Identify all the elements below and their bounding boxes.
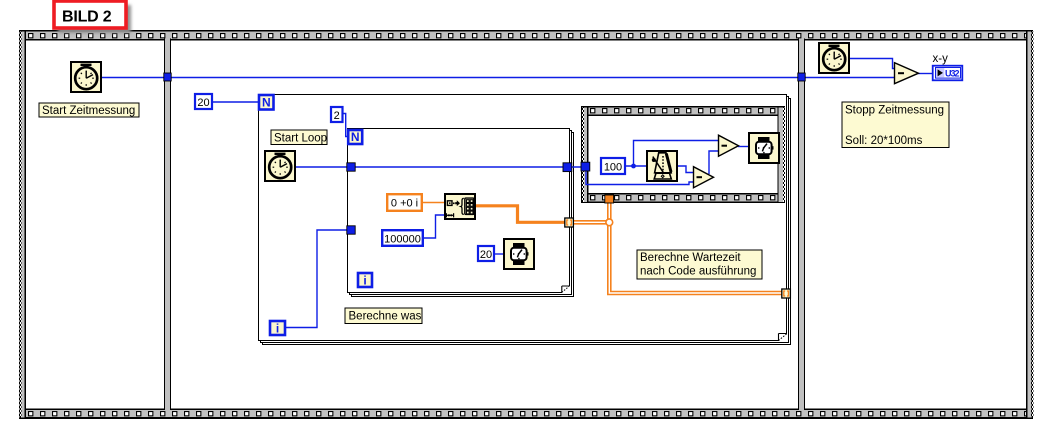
svg-text:100: 100	[604, 162, 622, 174]
svg-text:20: 20	[480, 249, 492, 261]
svg-text:2: 2	[334, 110, 340, 122]
svg-text:Berechne Wartezeit: Berechne Wartezeit	[640, 252, 741, 264]
svg-text:0 +0 i: 0 +0 i	[391, 198, 418, 210]
svg-text:nach Code ausführung: nach Code ausführung	[640, 266, 756, 278]
svg-text:i: i	[276, 321, 279, 335]
svg-text:100000: 100000	[384, 233, 421, 245]
svg-text:i: i	[363, 273, 366, 287]
svg-text:N: N	[262, 95, 271, 109]
svg-text:20: 20	[197, 97, 209, 109]
svg-text:Start Zeitmessung: Start Zeitmessung	[42, 105, 135, 117]
svg-text:BILD 2: BILD 2	[62, 9, 112, 26]
svg-text:Berechne was: Berechne was	[349, 311, 422, 323]
svg-text:Soll: 20*100ms: Soll: 20*100ms	[845, 135, 923, 147]
svg-text:x-y: x-y	[933, 53, 949, 65]
svg-text:Stopp Zeitmessung: Stopp Zeitmessung	[845, 105, 944, 117]
svg-text:U32: U32	[945, 68, 960, 78]
svg-text:Start Loop: Start Loop	[274, 132, 327, 144]
svg-text:N: N	[351, 130, 360, 144]
